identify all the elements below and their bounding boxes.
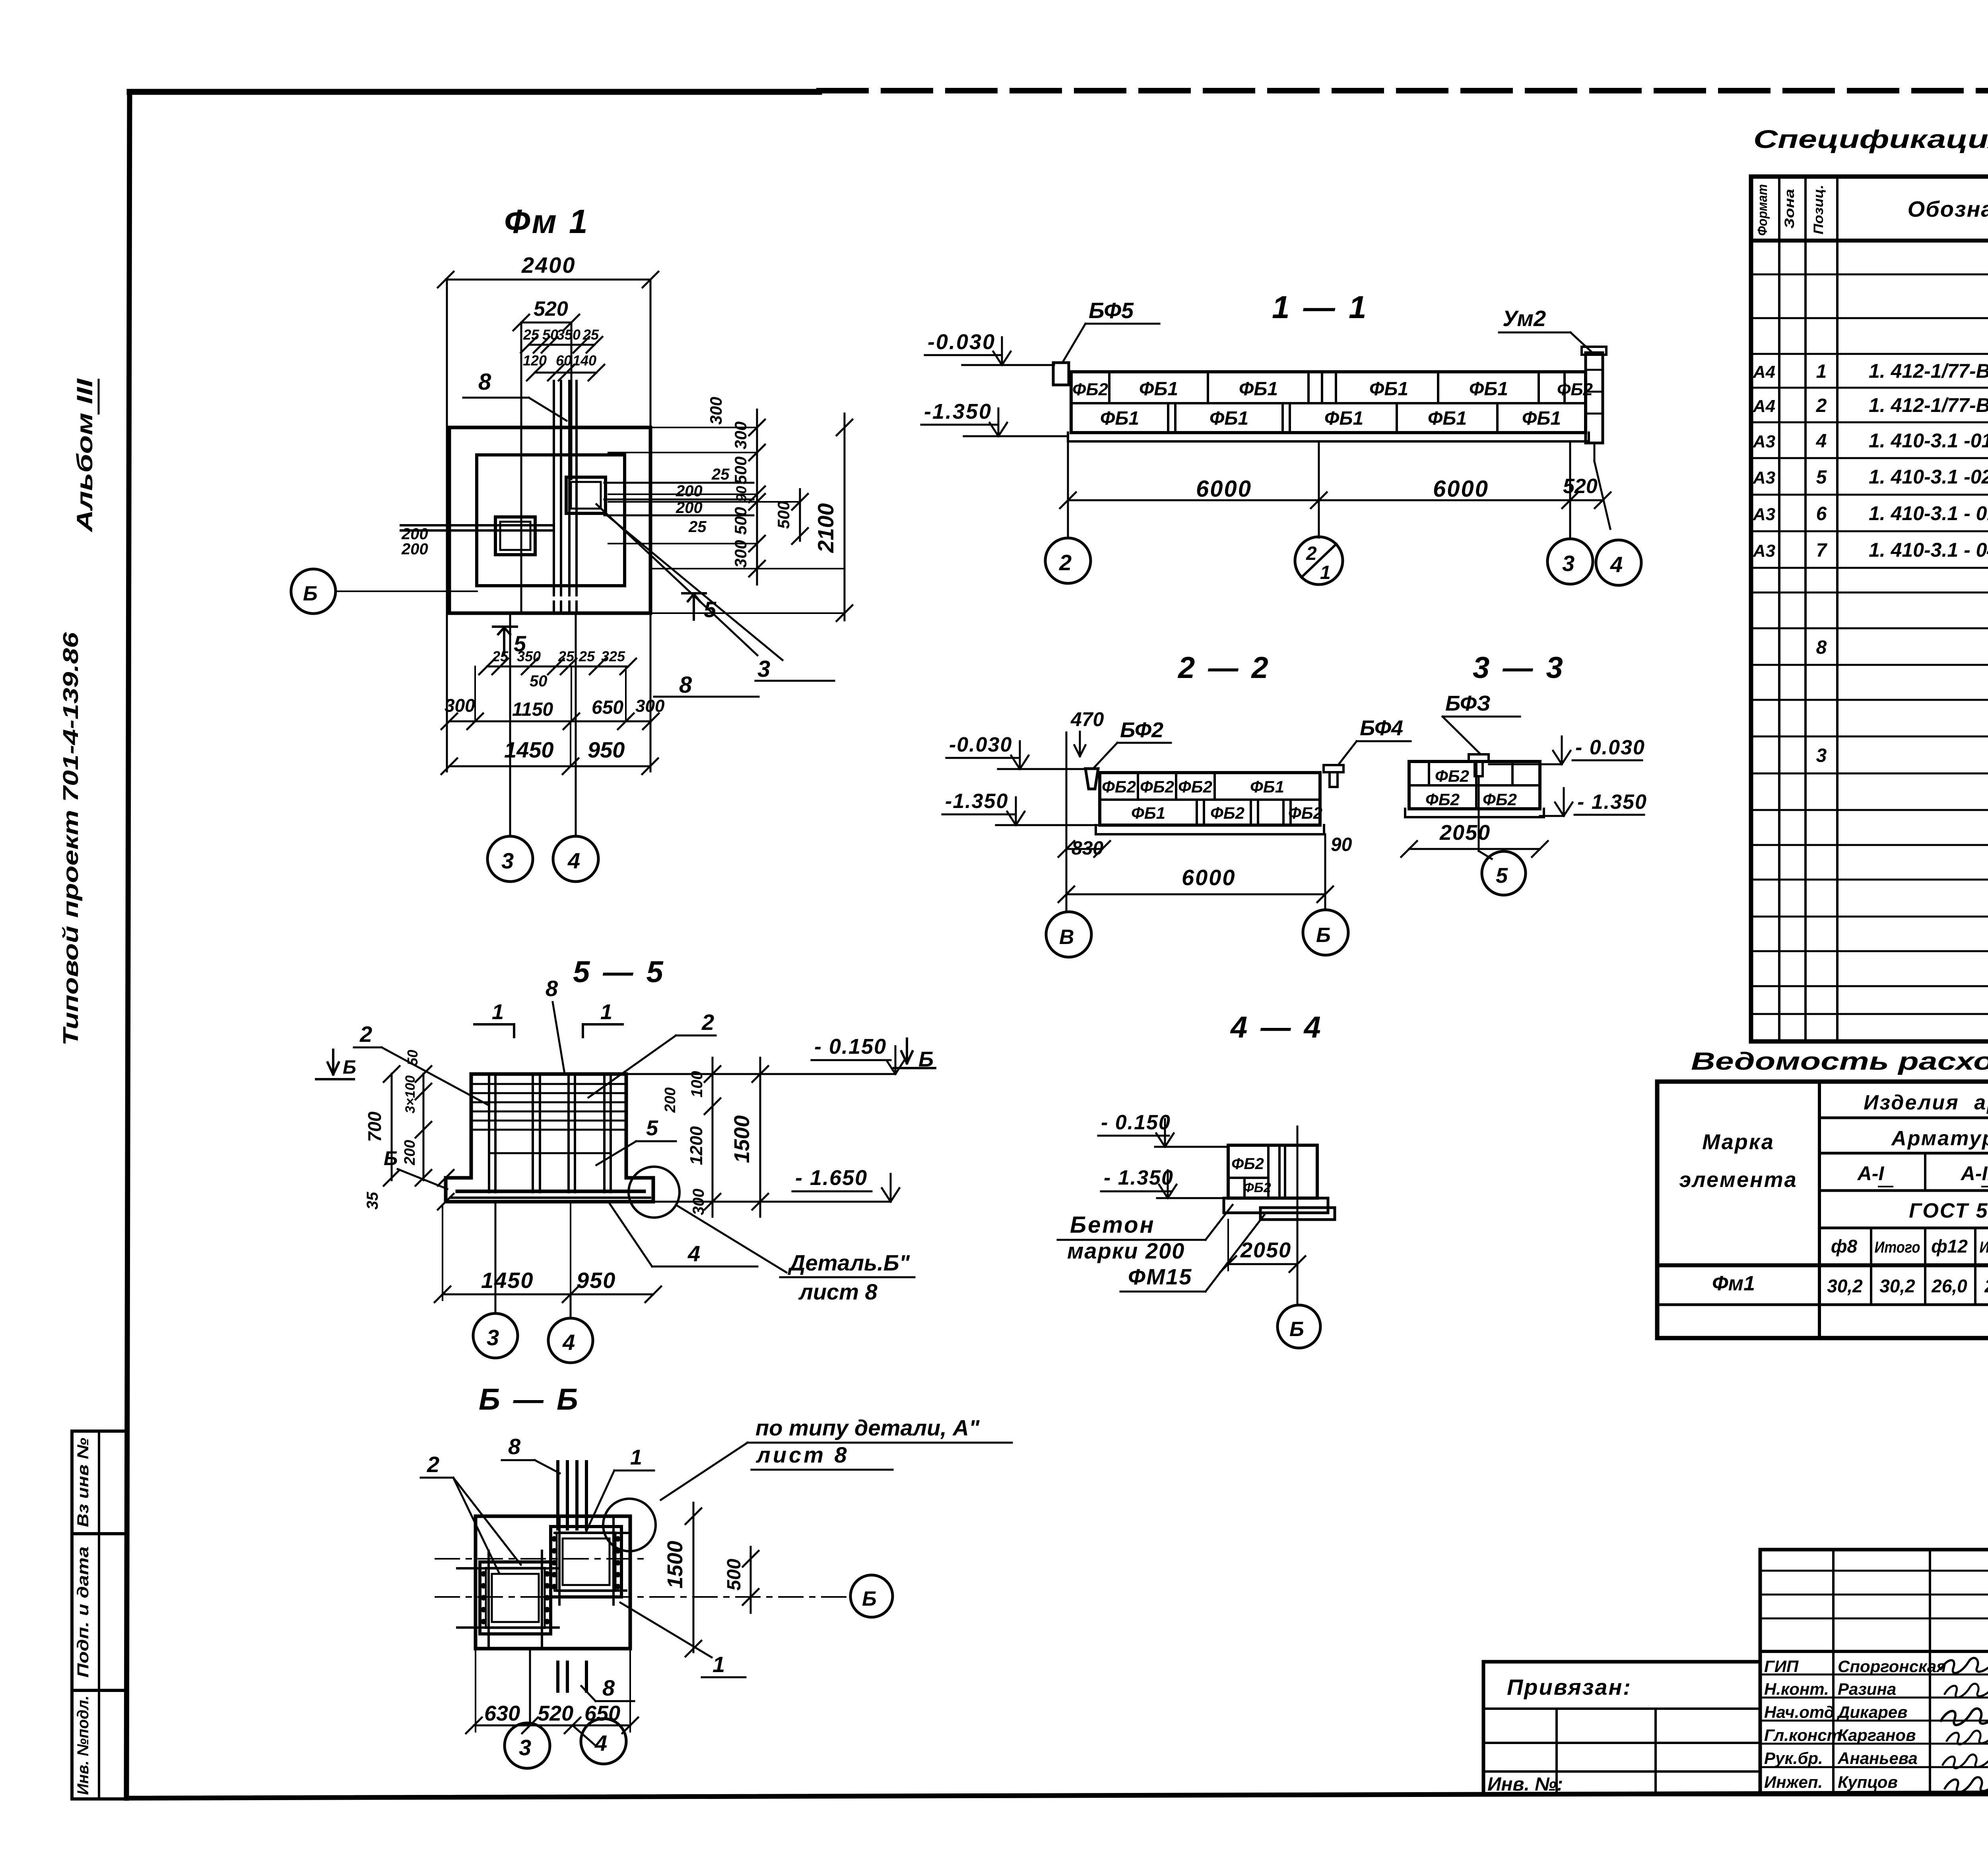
1-1 axis lines and circles [1067,441,1069,538]
svg-text:ФБ2: ФБ2 [1483,790,1517,809]
svg-text:300: 300 [731,422,750,449]
svg-text:1500: 1500 [663,1541,687,1589]
svg-text:1: 1 [492,1000,504,1024]
svg-text:8: 8 [1816,637,1827,658]
svg-text:3: 3 [487,1325,499,1350]
svg-text:120: 120 [523,352,547,369]
svg-text:200: 200 [402,1140,418,1165]
svg-text:325: 325 [601,648,625,664]
svg-text:500: 500 [724,1559,745,1591]
svg-text:- 1.650: - 1.650 [795,1166,868,1190]
svg-text:3: 3 [757,656,770,682]
svg-text:Б: Б [303,582,318,605]
svg-text:630: 630 [484,1702,520,1725]
svg-text:Б: Б [862,1587,877,1610]
axis circle Б left [291,569,336,614]
svg-text:60: 60 [556,352,572,369]
svg-text:лист 8: лист 8 [755,1442,849,1467]
svg-text:по типу детали, А": по типу детали, А" [755,1415,980,1440]
svg-text:4: 4 [594,1731,607,1756]
svg-text:Обозначение: Обозначение [1908,196,1988,221]
right dim 2100 [844,414,846,620]
svg-text:2: 2 [1059,550,1072,575]
svg-text:2: 2 [359,1022,372,1047]
svg-text:А3: А3 [1753,468,1775,488]
svg-text:8: 8 [546,976,558,1001]
svg-text:950: 950 [577,1268,616,1293]
2-2 block band [1100,773,1320,825]
svg-text:А3: А3 [1753,505,1775,524]
svg-text:8: 8 [602,1675,615,1700]
svg-text:2 — 2: 2 — 2 [1177,651,1271,685]
right dim 500 [799,489,801,541]
svg-text:2100: 2100 [813,503,838,553]
svg-text:1. 410-3.1 -02: 1. 410-3.1 -02 [1869,466,1988,488]
svg-text:470: 470 [1070,708,1104,730]
svg-text:БФ5: БФ5 [1089,298,1134,323]
svg-text:350: 350 [557,326,580,343]
svg-text:Рук.бр.: Рук.бр. [1764,1749,1823,1768]
Б-Б detail circle [603,1499,656,1551]
svg-text:200: 200 [662,1088,679,1113]
svg-text:ФБ2: ФБ2 [1102,777,1136,796]
Б-Б axis circles 3 4 [529,1649,531,1723]
svg-text:ФБ1: ФБ1 [1428,408,1467,429]
svg-text:25: 25 [688,518,707,536]
Б-Б cage rebar dots [551,1536,557,1542]
svg-text:лист 8: лист 8 [798,1279,878,1304]
svg-text:ФБ1: ФБ1 [1209,408,1248,429]
svg-text:-1.350: -1.350 [924,400,992,423]
svg-text:А4: А4 [1753,362,1775,382]
svg-text:марки 200: марки 200 [1067,1238,1185,1263]
plan vertical rebars [553,381,555,587]
svg-text:1200: 1200 [687,1126,706,1165]
svg-text:2: 2 [1816,395,1827,416]
left edge inventory strip table [72,1431,126,1799]
3-3 bottom slab strip [1405,816,1544,818]
Б-Б outer square [476,1516,630,1649]
svg-text:1500: 1500 [730,1115,754,1163]
svg-text:8: 8 [679,672,692,698]
svg-text:Фм 1: Фм 1 [504,203,589,240]
svg-text:Споргонская: Споргонская [1838,1657,1946,1676]
svg-text:БФ2: БФ2 [1120,718,1163,742]
Б-Б upper-right cage [551,1527,621,1597]
svg-text:- 0.150: - 0.150 [1101,1111,1171,1134]
svg-text:30,2: 30,2 [1827,1276,1863,1296]
right dim chain 300/500/90/500/300 [756,410,758,585]
svg-text:6000: 6000 [1433,476,1489,502]
2-2 top row joints [1137,773,1139,800]
Ум2 element at right [1586,353,1603,443]
svg-text:ФБ1: ФБ1 [1100,408,1139,429]
svg-text:Вз инв №: Вз инв № [74,1437,92,1527]
svg-text:ФБ1: ФБ1 [1239,379,1278,400]
svg-text:2050: 2050 [1240,1238,1291,1262]
svg-text:3: 3 [501,848,514,873]
5-5 left dims [391,1074,393,1180]
svg-text:300: 300 [707,397,725,425]
Б-Б axis circle Б [850,1575,893,1617]
svg-text:5: 5 [1496,864,1508,888]
svg-text:4: 4 [562,1330,575,1355]
section marks 5 [503,628,505,654]
svg-text:1: 1 [600,1000,612,1024]
svg-text:2: 2 [427,1452,439,1477]
title block: left привязан box [1483,1662,1760,1795]
svg-text:1: 1 [1320,562,1331,583]
1-1 beam band outline [1071,372,1586,433]
svg-text:25: 25 [711,466,730,483]
svg-text:300: 300 [445,695,475,716]
svg-text:1. 412-1/77-В.3-100: 1. 412-1/77-В.3-100 [1869,394,1988,416]
5-5 stirrups [474,1083,623,1085]
svg-text:ФБ2: ФБ2 [1140,777,1174,796]
signatures [1940,1658,1988,1673]
svg-text:ФБ1: ФБ1 [1131,804,1165,822]
svg-text:- 1.350: - 1.350 [1104,1166,1174,1189]
svg-text:300: 300 [635,696,665,716]
1-1 bottom slab strip [1068,440,1589,443]
Б-Б label 1 bottom leader [620,1602,712,1657]
Б-Б lower-left cage [480,1562,551,1634]
Б-Б axis dash lines [435,1558,644,1560]
svg-text:1: 1 [630,1445,642,1469]
svg-text:2: 2 [1306,543,1317,564]
svg-text:Инжеп.: Инжеп. [1764,1773,1823,1791]
Б-Б rebars up from cage [556,1462,559,1529]
svg-text:5 — 5: 5 — 5 [573,955,666,989]
5-5 right dim chains [712,1058,714,1217]
svg-text:БФЗ: БФЗ [1445,691,1491,715]
spec table grid [1751,177,1988,1041]
svg-text:3 — 3: 3 — 3 [1473,651,1565,685]
svg-text:Зона: Зона [1782,189,1797,229]
5-5 bottom mesh bars [457,1190,644,1193]
svg-text:БФ4: БФ4 [1360,716,1403,740]
svg-text:3: 3 [519,1735,531,1760]
3-3 axis circle 5 [1478,776,1480,851]
svg-text:500: 500 [731,456,750,484]
svg-text:Типовой проект 701-4-139.86: Типовой проект 701-4-139.86 [59,632,83,1046]
svg-text:-0.030: -0.030 [928,330,996,354]
2-2 bottom row joints [1196,800,1198,825]
svg-text:6000: 6000 [1182,865,1236,890]
svg-text:- 1.350: - 1.350 [1577,791,1647,814]
svg-text:5: 5 [646,1116,658,1140]
svg-text:Ум2: Ум2 [1503,306,1546,331]
svg-text:ФБ1: ФБ1 [1469,379,1508,400]
svg-text:50: 50 [530,672,547,690]
svg-text:300: 300 [690,1189,707,1215]
svg-text:700: 700 [364,1111,385,1142]
svg-text:350: 350 [517,648,541,664]
svg-text:1450: 1450 [481,1268,534,1293]
svg-text:1450: 1450 [504,737,554,762]
svg-text:6000: 6000 [1196,476,1252,502]
svg-text:Итого: Итого [1980,1239,1988,1256]
svg-text:6: 6 [1816,503,1827,524]
svg-text:5: 5 [1816,467,1827,488]
svg-text:Ведомость расхода стали на: Ведомость расхода стали на элемент, кг [1691,1048,1988,1075]
svg-text:Итого: Итого [1875,1239,1920,1256]
svg-text:Формат: Формат [1755,184,1770,236]
svg-text:500: 500 [774,501,793,529]
svg-text:2050: 2050 [1439,821,1491,845]
4-4 bottom slabs [1224,1198,1328,1213]
svg-text:В: В [1059,926,1074,949]
svg-text:Арматура класса: Арматура класса [1891,1127,1988,1150]
svg-text:950: 950 [588,737,625,762]
svg-text:Б: Б [918,1047,934,1071]
svg-text:Купцов: Купцов [1838,1773,1898,1791]
svg-text:50: 50 [404,1050,421,1066]
svg-text:1. 410-3.1 - 01: 1. 410-3.1 - 01 [1869,502,1988,524]
svg-text:ГИП: ГИП [1764,1657,1799,1676]
БФ5 element at left [1053,363,1069,385]
svg-text:Б: Б [1289,1318,1304,1341]
svg-text:8: 8 [508,1434,521,1459]
svg-text:1. 412-1/77-В.3-020: 1. 412-1/77-В.3-020 [1869,360,1988,382]
svg-text:Привязан:: Привязан: [1507,1674,1632,1700]
5-5 detail circle Б [629,1167,679,1218]
4-4 axis circle Б [1297,1127,1299,1305]
svg-text:Подп. и дата: Подп. и дата [74,1546,92,1678]
svg-text:Ананьева: Ананьева [1837,1749,1918,1768]
plan horizontal rebars left with 200 labels [401,524,553,526]
svg-text:А3: А3 [1753,432,1775,451]
svg-text:ФБ1: ФБ1 [1250,777,1284,796]
svg-text:Н.конт.: Н.конт. [1764,1680,1829,1698]
svg-text:Гл.конст: Гл.конст [1764,1726,1842,1744]
svg-text:4: 4 [1816,431,1827,452]
svg-text:650: 650 [592,697,623,718]
svg-text:Марка: Марка [1702,1130,1774,1154]
svg-text:1: 1 [712,1652,725,1677]
svg-text:26,0: 26,0 [1931,1276,1967,1296]
svg-text:А-I: А-I [1857,1162,1885,1185]
2-2 bottom slab strip [1096,833,1324,835]
svg-text:4: 4 [567,848,580,873]
svg-text:Б: Б [384,1147,398,1169]
2-2 axis circles В and Б [1066,732,1068,912]
svg-text:ФБ2: ФБ2 [1178,777,1212,796]
svg-text:200: 200 [401,540,428,558]
svg-text:А4: А4 [1753,396,1775,416]
svg-text:2: 2 [701,1010,714,1035]
БФ4 tee element [1324,765,1343,772]
5-5 Б marks [332,1050,334,1074]
БФ2 wedge element [1085,769,1098,789]
svg-text:4: 4 [687,1241,700,1266]
svg-text:Б — Б: Б — Б [479,1383,580,1416]
svg-text:520: 520 [1563,475,1598,498]
svg-text:Карганов: Карганов [1838,1726,1916,1744]
sheet frame border [130,89,819,95]
svg-text:ф8: ф8 [1831,1236,1858,1257]
5-5 foundation profile [446,1074,653,1202]
svg-text:Нач.отд: Нач.отд [1764,1703,1835,1721]
svg-text:140: 140 [573,352,596,369]
svg-text:ФБ2: ФБ2 [1210,804,1244,822]
3-3 block assembly [1409,761,1540,809]
plan inner square [477,455,625,586]
svg-text:-1.350: -1.350 [945,790,1008,813]
svg-text:Фм1: Фм1 [1712,1272,1755,1295]
svg-text:- 0.150: - 0.150 [814,1035,887,1059]
4-4 block assembly [1228,1145,1317,1198]
svg-text:25: 25 [523,326,540,343]
title block: central signature columns [1760,1550,1988,1795]
plan horizontal rebars right [604,482,753,484]
svg-text:Инв. №подл.: Инв. №подл. [74,1696,92,1795]
svg-text:ФБ1: ФБ1 [1522,408,1561,429]
svg-text:ФБ2: ФБ2 [1072,380,1109,399]
svg-text:Бетон: Бетон [1070,1212,1155,1238]
svg-text:4: 4 [1610,552,1623,577]
svg-text:3: 3 [1562,551,1574,576]
svg-text:100: 100 [688,1071,706,1097]
svg-text:ГОСТ 5781 -82: ГОСТ 5781 -82 [1909,1199,1988,1222]
svg-text:7: 7 [1816,540,1828,561]
svg-text:1150: 1150 [512,699,553,720]
svg-text:Изделия арматурные: Изделия арматурные [1864,1091,1988,1114]
svg-text:1. 410-3.1 - 04: 1. 410-3.1 - 04 [1869,539,1988,561]
plan column B (bottom-left) [495,517,535,555]
svg-text:520: 520 [538,1702,573,1725]
plan column A (top-right) [566,477,606,513]
svg-text:ФБ2: ФБ2 [1288,804,1322,822]
svg-text:А-II: А-II [1960,1162,1988,1185]
svg-text:Б: Б [343,1057,356,1078]
svg-text:26,0: 26,0 [1984,1276,1988,1296]
svg-text:35: 35 [364,1192,381,1210]
svg-text:Позиц.: Позиц. [1811,185,1826,235]
svg-text:1: 1 [1816,361,1827,382]
plan axis circles 3 and 4 [509,613,511,837]
1-1 bottom row block joints [1167,403,1169,433]
svg-text:ФБ1: ФБ1 [1139,379,1178,400]
svg-text:1. 410-3.1 -01: 1. 410-3.1 -01 [1869,429,1988,452]
svg-text:элемента: элемента [1679,1168,1797,1192]
leaders 8 and 3 bottom [596,504,757,655]
svg-text:8: 8 [478,369,491,395]
svg-text:ф12: ф12 [1931,1236,1968,1257]
1-1 top row block joints [1108,372,1110,403]
plan outer footing square [449,427,650,613]
svg-text:500: 500 [731,507,750,535]
svg-text:Дикарев: Дикарев [1837,1703,1908,1721]
svg-text:Разина: Разина [1838,1680,1896,1698]
svg-text:-0.030: -0.030 [949,733,1012,756]
svg-text:Деталь.Б": Деталь.Б" [788,1250,911,1275]
svg-text:ФБ1: ФБ1 [1369,379,1408,400]
svg-text:Б: Б [1316,924,1331,947]
svg-text:ФБ2: ФБ2 [1243,1180,1271,1195]
svg-text:А3: А3 [1753,541,1775,561]
svg-text:- 0.030: - 0.030 [1575,736,1645,759]
svg-text:3×100: 3×100 [403,1075,418,1113]
svg-text:4 — 4: 4 — 4 [1230,1010,1323,1044]
Б-Б crossing bars of lower cage [457,1567,559,1569]
svg-text:25: 25 [492,648,509,664]
steel table grid [1657,1082,1988,1338]
БФЗ tee element [1469,754,1489,761]
svg-text:520: 520 [534,297,568,320]
Б-Б rebars below cage [556,1662,559,1691]
svg-text:200: 200 [676,482,703,500]
svg-text:ФБ2: ФБ2 [1557,380,1593,399]
svg-text:1 — 1: 1 — 1 [1272,289,1369,325]
svg-text:30,2: 30,2 [1879,1276,1915,1296]
steel table horizontals [1819,1117,1988,1119]
svg-text:ФМ15: ФМ15 [1128,1264,1192,1289]
svg-text:Альбом III: Альбом III [72,378,97,533]
5-5 axis circles 3 and 4 [495,1202,497,1313]
svg-text:25: 25 [579,648,595,664]
Б-Б right dims 1500 500 [693,1503,695,1652]
5-5 vertical rebars [488,1076,490,1192]
svg-text:90: 90 [1331,834,1352,855]
svg-text:Спецификация элементов фунда: Спецификация элементов фундаментов [1753,125,1988,153]
svg-text:ФБ2: ФБ2 [1425,790,1460,809]
svg-text:ФБ1: ФБ1 [1324,408,1363,429]
svg-text:ФБ2: ФБ2 [1231,1155,1264,1173]
svg-text:2400: 2400 [521,253,576,278]
svg-text:ФБ2: ФБ2 [1435,767,1469,785]
svg-text:Инв. №:: Инв. №: [1487,1774,1563,1795]
svg-text:3: 3 [1816,745,1827,766]
